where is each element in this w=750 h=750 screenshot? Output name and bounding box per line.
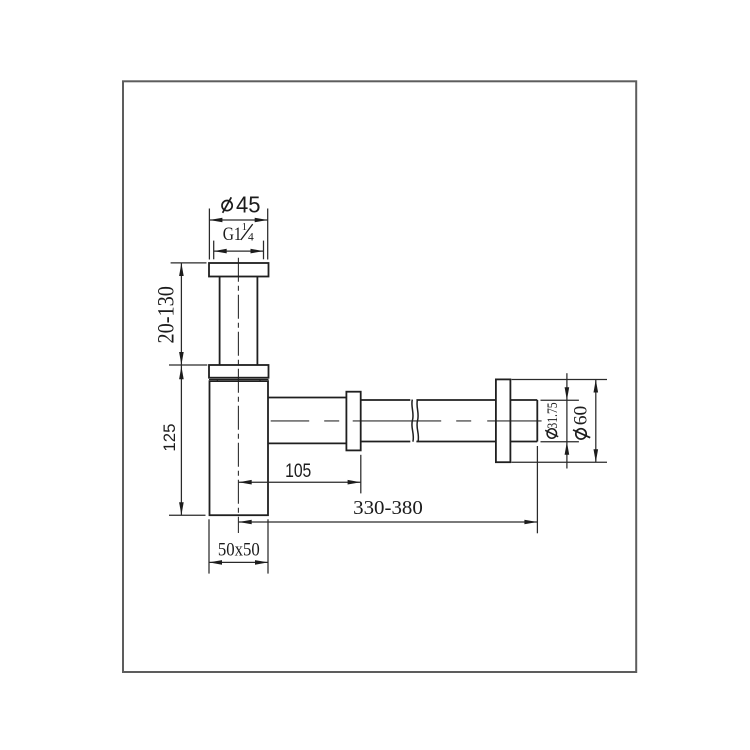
svg-text:45: 45 [236, 191, 261, 217]
svg-text:105: 105 [285, 461, 311, 482]
svg-text:31.75: 31.75 [545, 402, 561, 428]
svg-text:330-380: 330-380 [353, 497, 423, 519]
svg-text:G1: G1 [223, 224, 242, 245]
svg-text:1: 1 [242, 222, 247, 233]
svg-text:4: 4 [248, 232, 254, 244]
svg-text:125: 125 [160, 424, 179, 452]
svg-text:60: 60 [571, 406, 592, 426]
svg-text:20-130: 20-130 [154, 286, 179, 344]
svg-text:50x50: 50x50 [218, 539, 260, 560]
